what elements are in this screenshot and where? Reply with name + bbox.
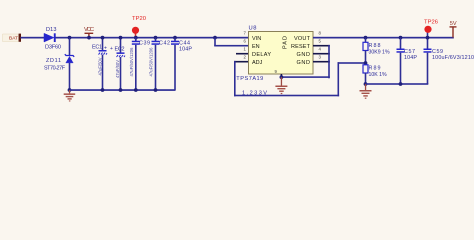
svg-text:VOUT: VOUT [294,36,311,42]
zener ZD11 [44,54,74,71]
svg-text:47uF/50V: 47uF/50V [97,57,102,75]
svg-text:EN: EN [252,44,260,50]
svg-text:100uF/6V3/1210: 100uF/6V3/1210 [432,55,474,61]
node R88 top [364,36,368,40]
main rail VOUT to 5V [313,37,454,39]
ground under PAD [275,77,287,94]
wire ZD bottom lead [69,63,71,91]
net label 1.233V and feedback wire [234,62,366,96]
wire ADJ pin stub and feedback drop [234,61,249,63]
svg-text:+: + [110,46,113,52]
svg-text:ST70-27F: ST70-27F [44,66,66,72]
svg-text:ZD11: ZD11 [46,58,61,64]
svg-text:BAT: BAT [9,36,18,42]
wire BAT to D13 anode [21,37,45,39]
capacitor C39 [129,36,150,92]
bottom ground rail [70,89,176,91]
wire ZD column upper [69,38,71,56]
wire GND chain vertical [328,45,330,78]
node PAD/GND junction [280,75,284,79]
node bottom rail at ZD [68,88,72,92]
testpoint TP20 [132,16,146,37]
capacitor EC2 [110,36,125,92]
svg-text:TP26: TP26 [424,20,438,26]
node at ZD11 column [68,36,72,40]
svg-text:ADJ: ADJ [252,60,263,66]
svg-text:104P: 104P [179,47,192,53]
svg-text:GND: GND [297,52,311,58]
svg-text:TP20: TP20 [132,16,146,22]
wire D13 cathode to VIN pin (main rail) [56,37,250,39]
node divider mid [364,61,368,65]
power VCC [84,27,94,37]
svg-text:D3F60: D3F60 [45,45,61,51]
svg-text:PAD: PAD [283,36,289,49]
svg-text:104P: 104P [404,55,417,61]
testpoint TP26 [424,20,438,40]
wire GND to PAD run [281,76,330,78]
svg-text:C42: C42 [159,41,170,47]
ground under R89 [360,84,372,99]
sheet background [0,0,474,115]
svg-text:U8: U8 [249,25,257,31]
capacitor C57 [397,36,418,86]
capacitor EC1 [92,36,107,92]
svg-text:VCC: VCC [84,27,94,33]
power 5V [450,21,457,38]
node EN riser [213,36,217,40]
node VCC on rail [87,36,91,40]
svg-text:VIN: VIN [252,36,261,42]
svg-text:5V: 5V [450,21,457,27]
svg-text:R89: R89 [369,66,381,72]
svg-text:+: + [104,45,107,51]
svg-text:TPS7A19: TPS7A19 [236,76,263,82]
wire cap bottoms y84 [366,83,429,85]
capacitor C42 [149,36,171,92]
svg-text:C39: C39 [139,41,150,47]
resistor R88 [363,38,390,63]
svg-text:DELAY: DELAY [252,52,271,58]
wire EN riser and run to EN pin [214,38,216,46]
svg-text:10K 1%: 10K 1% [369,72,388,78]
wire RESET stub [313,45,330,47]
svg-text:30K9 1%: 30K9 1% [369,49,390,55]
svg-text:RESET: RESET [291,44,311,50]
svg-text:47uF/50V/1206: 47uF/50V/1206 [129,47,134,77]
svg-text:GND: GND [297,60,311,66]
svg-text:R88: R88 [369,43,381,49]
wire DELAY pin stub [236,53,249,55]
svg-text:47uF/50V/1206: 47uF/50V/1206 [149,47,154,77]
ground under ZD column [64,90,75,102]
svg-text:1.233V: 1.233V [242,91,267,97]
svg-text:EC2: EC2 [115,46,125,52]
diode D13 [44,27,61,51]
pin PAD vertical [281,74,283,78]
svg-text:D13: D13 [46,27,57,33]
resistor R89 [363,65,387,85]
capacitor C44 [171,36,192,91]
wire GND stubs [313,53,330,55]
svg-text:EC1: EC1 [92,44,102,50]
capacitor C59 [424,38,474,84]
op-amp-style IC U8 (TPS7A19 regulator) body [236,25,313,82]
node R89 bottom / cap-ground wire [364,82,368,86]
port BAT [3,34,22,42]
svg-text:47uF/50V: 47uF/50V [115,60,120,78]
